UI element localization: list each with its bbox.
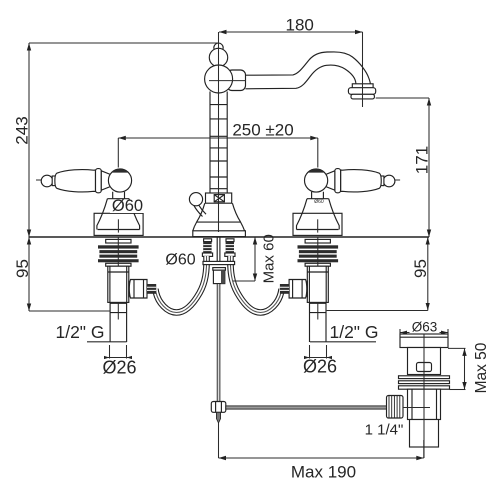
svg-text:Ø63: Ø63 [412,319,438,334]
svg-text:95: 95 [13,259,32,278]
svg-text:171: 171 [412,146,431,174]
svg-text:Max 190: Max 190 [291,463,356,482]
svg-text:1 1/4": 1 1/4" [365,422,404,439]
svg-text:1/2" G: 1/2" G [329,322,378,342]
svg-text:Ø60: Ø60 [112,197,143,215]
svg-text:Ø60: Ø60 [314,199,324,205]
svg-text:95: 95 [411,259,430,278]
svg-text:1/2" G: 1/2" G [55,322,104,342]
svg-text:180: 180 [286,16,314,35]
svg-text:Ø60: Ø60 [165,252,195,269]
svg-text:Ø26: Ø26 [303,357,337,377]
svg-text:Max 60: Max 60 [261,234,278,283]
svg-text:Ø26: Ø26 [102,358,136,378]
svg-text:243: 243 [13,116,32,144]
svg-text:250 ±20: 250 ±20 [232,121,293,140]
svg-text:Max 50: Max 50 [473,342,490,393]
